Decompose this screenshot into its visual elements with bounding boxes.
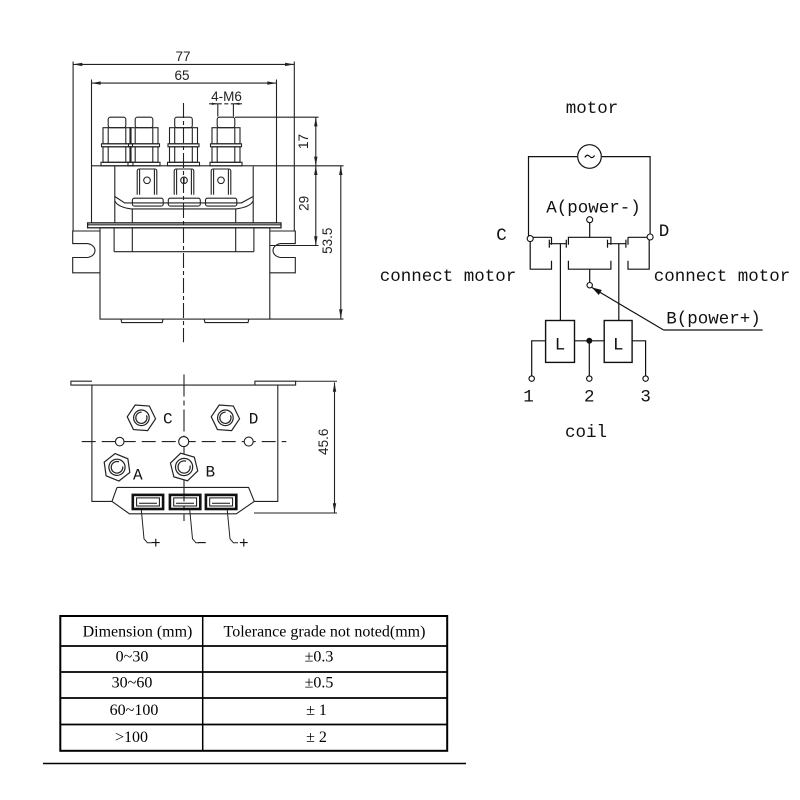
svg-text:coil: coil [565,423,607,443]
svg-text:C: C [496,226,507,246]
svg-text:0~30: 0~30 [116,649,149,666]
svg-text:29: 29 [297,196,312,211]
svg-text:B(power+): B(power+) [666,310,761,330]
svg-text:60~100: 60~100 [110,702,159,719]
svg-text:17: 17 [296,134,311,149]
svg-text:connect motor: connect motor [654,267,791,287]
svg-text:C: C [163,411,173,429]
svg-text:65: 65 [174,68,189,83]
svg-text:D: D [659,222,670,242]
svg-text:A: A [133,467,143,485]
svg-text:Dimension (mm): Dimension (mm) [83,624,193,641]
svg-text:connect motor: connect motor [380,267,517,287]
svg-text:± 1: ± 1 [306,702,327,719]
svg-text:53.5: 53.5 [320,228,335,254]
svg-text:L: L [613,336,624,356]
svg-text:45.6: 45.6 [316,429,331,455]
svg-text:3: 3 [640,388,651,408]
svg-text:4-M6: 4-M6 [211,89,242,104]
svg-text:A(power-): A(power-) [546,199,641,219]
svg-text:D: D [249,411,259,429]
svg-text:B: B [206,464,216,482]
svg-text:2: 2 [584,388,595,408]
svg-text:L: L [555,336,566,356]
svg-text:77: 77 [175,49,190,64]
svg-text:30~60: 30~60 [112,675,153,692]
svg-text:>100: >100 [115,729,148,746]
svg-text:± 2: ± 2 [306,729,327,746]
svg-text:+: + [151,535,161,553]
svg-text:±0.3: ±0.3 [305,649,334,666]
svg-text:motor: motor [566,99,619,119]
svg-text:Tolerance grade not noted(mm): Tolerance grade not noted(mm) [224,624,426,641]
svg-text:+: + [239,535,249,553]
svg-text:−: − [197,535,207,553]
svg-text:±0.5: ±0.5 [305,675,334,692]
svg-text:1: 1 [523,388,534,408]
